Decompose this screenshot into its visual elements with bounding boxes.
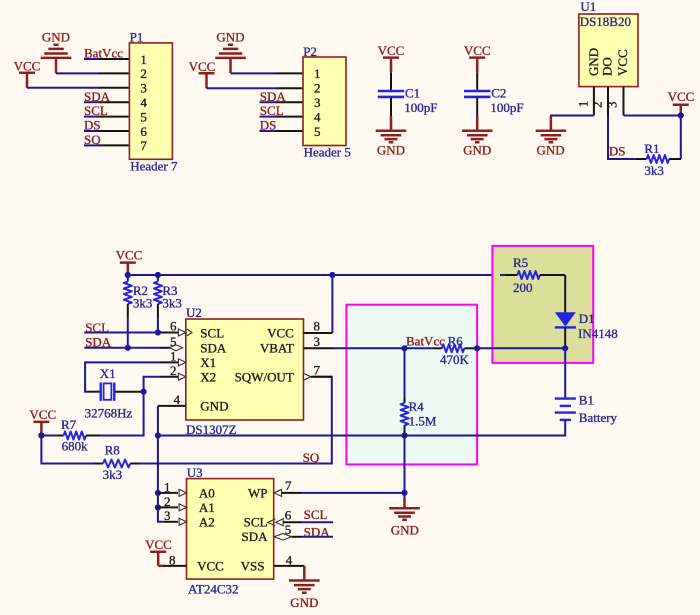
resistor R5 bbox=[504, 271, 565, 279]
svg-text:8: 8 bbox=[169, 552, 176, 567]
pin C1 bottom bbox=[390, 98, 392, 116]
svg-text:VCC: VCC bbox=[29, 407, 56, 422]
svg-text:GND: GND bbox=[391, 522, 419, 537]
svg-text:R8: R8 bbox=[105, 442, 120, 457]
power VCC at U1 bbox=[673, 105, 689, 116]
svg-text:3: 3 bbox=[314, 95, 321, 110]
svg-text:DS: DS bbox=[260, 118, 277, 133]
wire R1 to VCC riser bbox=[624, 116, 681, 160]
connector P2 pins 1-5 bbox=[277, 73, 304, 131]
svg-text:Header 7: Header 7 bbox=[130, 159, 178, 174]
wire VCC to P2 pin2 bbox=[207, 87, 277, 89]
ground GND at C2 bbox=[462, 116, 493, 143]
svg-text:SCL: SCL bbox=[304, 507, 328, 522]
pin 1 of U2 arrow bbox=[178, 359, 185, 366]
svg-text:100pF: 100pF bbox=[404, 100, 437, 115]
svg-text:VCC: VCC bbox=[197, 559, 224, 574]
svg-text:1: 1 bbox=[314, 66, 321, 81]
wire X1 pin loop bbox=[85, 362, 161, 391]
svg-text:VSS: VSS bbox=[241, 559, 265, 574]
svg-text:1: 1 bbox=[140, 52, 147, 67]
svg-text:R7: R7 bbox=[61, 417, 77, 432]
battery B1 bbox=[555, 399, 576, 420]
svg-text:GND: GND bbox=[200, 399, 228, 414]
svg-text:8: 8 bbox=[314, 319, 321, 334]
wire GND to P1 pin2 bbox=[56, 72, 99, 74]
ground GND at VSS bbox=[289, 566, 320, 593]
svg-text:R1: R1 bbox=[644, 141, 659, 156]
svg-text:4: 4 bbox=[314, 109, 321, 124]
wire stub SCL (P1) bbox=[84, 116, 99, 118]
power VCC above U2 bbox=[120, 263, 136, 275]
resistor R6 bbox=[434, 344, 477, 352]
svg-text:3: 3 bbox=[314, 334, 321, 349]
svg-text:2: 2 bbox=[170, 363, 177, 378]
wire stub SDA (P1) bbox=[84, 101, 99, 103]
svg-text:R4: R4 bbox=[409, 399, 425, 414]
pin 6 of U2 with clock arrow bbox=[178, 329, 192, 336]
svg-text:2: 2 bbox=[314, 81, 321, 96]
IC U2 body bbox=[186, 319, 304, 420]
junction A1 bbox=[155, 504, 161, 510]
svg-text:GND: GND bbox=[463, 143, 491, 158]
svg-text:GND: GND bbox=[537, 143, 565, 158]
pin 3 of U3 with arrow bbox=[164, 518, 187, 525]
resistor R1 bbox=[635, 155, 681, 163]
pin 5 of U3 bidir arrow bbox=[274, 534, 302, 541]
svg-text:5: 5 bbox=[170, 334, 177, 349]
svg-text:2: 2 bbox=[140, 66, 147, 81]
svg-text:AT24C32: AT24C32 bbox=[188, 582, 239, 597]
pin 3 of U1 bbox=[623, 87, 625, 116]
svg-text:3: 3 bbox=[605, 102, 620, 109]
junction SDA/R2 bbox=[125, 345, 131, 351]
wire stub SDA (U3) bbox=[302, 536, 333, 538]
pin 2 of U1 bbox=[607, 87, 609, 116]
svg-text:X1: X1 bbox=[100, 366, 116, 381]
svg-text:SCL: SCL bbox=[244, 515, 268, 530]
crystal X1 bbox=[89, 383, 144, 401]
svg-text:100pF: 100pF bbox=[490, 100, 523, 115]
wire R2 down to SDA bbox=[127, 318, 129, 348]
pin 2 of U2 arrow bbox=[178, 373, 185, 380]
svg-text:C1: C1 bbox=[405, 86, 420, 101]
pin 8 of U2 bbox=[304, 332, 333, 334]
svg-text:SDA: SDA bbox=[200, 340, 227, 355]
connector P1 body bbox=[129, 43, 172, 159]
svg-text:1: 1 bbox=[170, 349, 177, 364]
wire U1 pin2 down to DS bbox=[608, 116, 635, 160]
junction SCL/R3 bbox=[155, 329, 161, 335]
svg-text:A0: A0 bbox=[199, 486, 215, 501]
power VCC at P1 bbox=[19, 73, 35, 88]
svg-text:VCC: VCC bbox=[668, 89, 695, 104]
svg-text:SDA: SDA bbox=[241, 529, 268, 544]
wire GND to P2 pin1 bbox=[231, 72, 277, 74]
svg-text:2: 2 bbox=[589, 102, 604, 109]
ground GND at U1 bbox=[536, 117, 567, 143]
wire stub DS (P2) bbox=[260, 130, 278, 132]
pin 2 of U3 with arrow bbox=[158, 504, 187, 511]
pin 5 of U2 bidir arrow bbox=[169, 345, 182, 351]
wire stub SDA (P2) bbox=[260, 101, 278, 103]
svg-text:GND: GND bbox=[377, 143, 405, 158]
connector P2 body bbox=[303, 57, 346, 146]
pin 4 of U2 bbox=[158, 405, 186, 407]
svg-text:6: 6 bbox=[140, 124, 147, 139]
svg-text:VCC: VCC bbox=[615, 49, 630, 76]
wire VCC down to R8 line bbox=[41, 436, 95, 464]
svg-text:A2: A2 bbox=[199, 515, 215, 530]
svg-text:3k3: 3k3 bbox=[103, 467, 123, 482]
svg-text:470K: 470K bbox=[440, 352, 470, 367]
pin 1 of U1 bbox=[593, 87, 595, 116]
svg-text:7: 7 bbox=[285, 478, 292, 493]
junction VCC/R7/R8 bbox=[38, 432, 44, 438]
pin C2 bottom bbox=[476, 98, 478, 116]
junction VCC rail at U2 pin8 riser bbox=[329, 272, 335, 278]
svg-text:GND: GND bbox=[42, 29, 70, 44]
power VCC at C2 bbox=[469, 58, 485, 73]
svg-text:2: 2 bbox=[164, 494, 171, 509]
svg-text:DS18B20: DS18B20 bbox=[580, 14, 631, 29]
svg-text:Header 5: Header 5 bbox=[304, 145, 351, 160]
wire WP to GND node bbox=[302, 492, 405, 494]
wire U1 pin1 to ground bbox=[551, 116, 594, 118]
capacitor C2 bbox=[464, 91, 490, 97]
svg-text:1.5M: 1.5M bbox=[409, 414, 437, 429]
pin 4 of U3 bbox=[274, 565, 304, 567]
pin C1 top bbox=[390, 72, 392, 90]
svg-text:WP: WP bbox=[248, 486, 268, 501]
wire SCL into U2 bbox=[84, 332, 161, 334]
wire stub SCL (P2) bbox=[260, 116, 278, 118]
svg-text:VCC: VCC bbox=[14, 58, 41, 73]
wire stub DS (P1) bbox=[84, 130, 99, 132]
junction neg rail / U2 GND bbox=[155, 432, 161, 438]
junction diode/battery bbox=[562, 345, 568, 351]
IC U3 body bbox=[187, 479, 274, 579]
svg-text:VCC: VCC bbox=[267, 325, 294, 340]
wire stub BatVcc bbox=[84, 58, 99, 60]
wire stub SCL (U3) bbox=[302, 521, 333, 523]
svg-text:VCC: VCC bbox=[189, 59, 216, 74]
wire VCC to P1 pin3 bbox=[27, 87, 99, 89]
svg-text:4: 4 bbox=[140, 95, 147, 110]
power VCC at U3 bbox=[150, 552, 166, 566]
svg-text:4: 4 bbox=[174, 392, 181, 407]
svg-text:GND: GND bbox=[586, 48, 601, 76]
pin C2 top bbox=[476, 72, 478, 90]
ground GND at P1 bbox=[41, 45, 72, 74]
diode D1 bbox=[555, 312, 576, 327]
svg-text:6: 6 bbox=[170, 319, 177, 334]
svg-text:3k3: 3k3 bbox=[133, 295, 153, 310]
pin D1 cathode bbox=[564, 327, 566, 348]
junction R6 right bbox=[474, 345, 480, 351]
wire crystal to X2 pin bbox=[144, 377, 161, 392]
junction at U1 VCC bbox=[678, 112, 684, 118]
svg-text:5: 5 bbox=[140, 109, 147, 124]
junction crystal node bbox=[141, 389, 147, 395]
svg-text:6: 6 bbox=[285, 507, 292, 522]
wire SDA into U2 bbox=[84, 347, 161, 349]
svg-text:Battery: Battery bbox=[579, 410, 618, 425]
svg-text:C2: C2 bbox=[491, 86, 506, 101]
junction A0 bbox=[155, 490, 161, 496]
power VCC at P2 bbox=[199, 73, 215, 88]
pin 8 of U3 bbox=[164, 565, 187, 567]
wire stub SQ (P1) bbox=[84, 144, 99, 146]
highlight box olive bbox=[492, 246, 593, 363]
svg-text:VBAT: VBAT bbox=[260, 340, 294, 355]
svg-text:U1: U1 bbox=[580, 0, 596, 14]
IC U1 body bbox=[579, 14, 638, 87]
svg-text:P1: P1 bbox=[130, 30, 144, 45]
wire crystal node down to R7 bbox=[100, 392, 144, 436]
svg-text:IN4148: IN4148 bbox=[578, 326, 618, 341]
svg-text:U2: U2 bbox=[186, 305, 202, 320]
wire battery bottom to neg rail bbox=[158, 420, 565, 436]
svg-text:DS: DS bbox=[609, 144, 626, 159]
pin D1 anode bbox=[564, 275, 566, 312]
power VCC at R7 bbox=[33, 422, 49, 436]
svg-text:VCC: VCC bbox=[116, 247, 143, 262]
svg-text:32768Hz: 32768Hz bbox=[85, 405, 133, 420]
junction BatVcc/R4 bbox=[401, 345, 407, 351]
svg-text:U3: U3 bbox=[187, 465, 203, 480]
ground GND below R4 bbox=[389, 497, 420, 519]
highlight box cyan bbox=[346, 305, 477, 465]
svg-text:GND: GND bbox=[216, 29, 244, 44]
junction WP/GND node bbox=[401, 490, 407, 496]
wire U2 pin8 riser to VCC rail bbox=[331, 275, 333, 333]
svg-text:7: 7 bbox=[140, 138, 147, 153]
wire VBAT BatVcc line bbox=[334, 347, 435, 349]
svg-text:X2: X2 bbox=[200, 369, 216, 384]
resistor R4 bbox=[401, 348, 409, 435]
power VCC at C1 bbox=[383, 58, 399, 73]
svg-text:R6: R6 bbox=[448, 333, 464, 348]
wire R3 down to SCL bbox=[157, 318, 159, 333]
pin 6 of U3 with clock arrow bbox=[268, 519, 302, 526]
capacitor C1 bbox=[378, 91, 404, 97]
svg-text:B1: B1 bbox=[579, 393, 594, 408]
svg-text:VCC: VCC bbox=[464, 43, 491, 58]
svg-text:SCL: SCL bbox=[200, 325, 224, 340]
svg-text:3: 3 bbox=[164, 508, 171, 523]
svg-text:A1: A1 bbox=[199, 500, 215, 515]
wire U2 GND pin down bbox=[157, 406, 159, 436]
ground GND at C1 bbox=[376, 116, 407, 143]
resistor R2 bbox=[124, 275, 132, 318]
svg-text:D1: D1 bbox=[579, 311, 595, 326]
wire R6 to diode node bbox=[477, 347, 565, 349]
junction VCC rail at R3 bbox=[155, 272, 161, 278]
ground GND at P2 bbox=[215, 45, 246, 73]
svg-text:DS: DS bbox=[84, 118, 101, 133]
svg-text:1: 1 bbox=[576, 101, 591, 108]
svg-text:SQ: SQ bbox=[303, 450, 320, 465]
svg-text:DO: DO bbox=[600, 57, 615, 76]
svg-text:VCC: VCC bbox=[378, 43, 405, 58]
resistor R7 bbox=[41, 432, 100, 440]
svg-text:5: 5 bbox=[285, 522, 292, 537]
svg-text:4: 4 bbox=[286, 552, 293, 567]
svg-text:X1: X1 bbox=[200, 355, 216, 370]
svg-text:200: 200 bbox=[513, 280, 533, 295]
wire VCC top rail bbox=[128, 274, 505, 276]
svg-text:SQW/OUT: SQW/OUT bbox=[235, 369, 294, 384]
wire R8 to SQ riser bbox=[140, 377, 332, 464]
junction VCC rail at R2 bbox=[125, 272, 131, 278]
wire R4 node down to GND bbox=[404, 436, 406, 499]
svg-text:VCC: VCC bbox=[145, 537, 172, 552]
pin 7 of U2 with out arrow bbox=[304, 373, 332, 380]
wire VCC rail into olive box bbox=[500, 274, 504, 276]
pin 7 of U3 with arrow bbox=[274, 489, 302, 496]
svg-text:3k3: 3k3 bbox=[644, 163, 664, 178]
svg-text:P2: P2 bbox=[303, 44, 317, 59]
connector P1 pins 1-7 bbox=[99, 59, 130, 145]
svg-text:680k: 680k bbox=[62, 438, 89, 453]
svg-text:R5: R5 bbox=[513, 255, 528, 270]
pin 3 of U2 bbox=[304, 347, 334, 349]
pin 1 of U3 with arrow bbox=[158, 489, 187, 496]
svg-text:GND: GND bbox=[290, 595, 318, 610]
svg-text:3k3: 3k3 bbox=[162, 295, 182, 310]
svg-text:1: 1 bbox=[164, 479, 171, 494]
svg-text:7: 7 bbox=[314, 362, 321, 377]
svg-text:5: 5 bbox=[314, 124, 321, 139]
svg-text:BatVcc: BatVcc bbox=[406, 333, 445, 348]
wire A-pins bus from U2 GND node bbox=[158, 436, 164, 522]
wire battery top bbox=[564, 348, 566, 398]
junction neg rail / R4 bbox=[401, 432, 407, 438]
svg-text:3: 3 bbox=[140, 81, 147, 96]
resistor R3 bbox=[154, 275, 162, 318]
resistor R8 bbox=[95, 460, 140, 468]
